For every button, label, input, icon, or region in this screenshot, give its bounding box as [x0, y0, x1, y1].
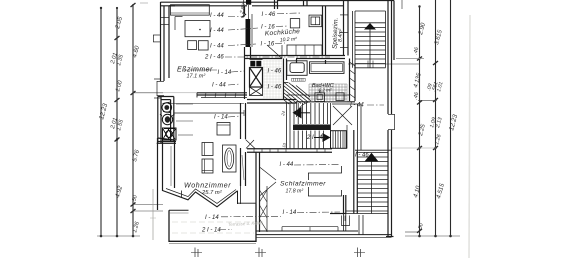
room label speisezimmer (vertical) — [332, 18, 344, 49]
svg-text:I - 14: I - 14 — [283, 210, 297, 216]
washbasin counter — [310, 60, 345, 73]
beam labels right area — [201, 103, 369, 234]
room label schlafzimmer — [280, 181, 326, 195]
svg-text:I - 46: I - 46 — [262, 12, 276, 18]
door swing schlafzimmer — [260, 167, 277, 180]
esszimmer chairs pair — [188, 41, 208, 50]
svg-text:2 I - 14: 2 I - 14 — [201, 228, 221, 234]
svg-text:17.1 m²: 17.1 m² — [187, 74, 206, 80]
hall faint tile grid — [263, 60, 282, 99]
ground datum mark 3 — [354, 248, 365, 258]
stove lower dark mass — [163, 128, 177, 140]
svg-text:2 I - 46: 2 I - 46 — [204, 55, 224, 61]
wall schlafzimmer bottom with window — [256, 214, 392, 238]
bad door swing — [297, 102, 312, 118]
hall radiator striped box — [331, 131, 347, 149]
dimension chain right outer (12.23) — [448, 0, 459, 237]
svg-text:I - 44: I - 44 — [210, 44, 224, 50]
beam labels I-46 column (kueche/bad) — [261, 12, 282, 91]
kitchen sink unit — [309, 15, 322, 27]
svg-text:8.4m²: 8.4m² — [338, 28, 344, 42]
svg-text:I - 46: I - 46 — [268, 69, 282, 75]
ground datum mark 1 — [191, 248, 202, 258]
window sill left upper — [153, 34, 161, 36]
svg-text:I - 44: I - 44 — [212, 83, 226, 89]
wall esszimmer bottom / wohnzimmer top — [168, 93, 296, 116]
svg-text:6.2 m²: 6.2 m² — [319, 88, 332, 93]
ground datum mark 2 — [255, 248, 266, 258]
wall kochkueche bottom (hall) — [245, 45, 345, 59]
bay window zigzag (wohnzimmer south) — [163, 189, 238, 207]
outer wall left wohnzimmer (thick pier) — [158, 138, 175, 210]
esszimmer table — [175, 17, 210, 37]
bay terrace rectangle — [169, 186, 256, 241]
window right wall — [394, 114, 396, 130]
stairs lower right direction arrow — [365, 153, 379, 162]
schlafzimmer closet outline — [308, 166, 341, 196]
wohnzimmer table with oval — [223, 145, 237, 172]
stairs center landing band (dark) — [293, 125, 331, 131]
wall schlafzimmer left hatched column — [256, 152, 276, 232]
svg-text:I - 46: I - 46 — [268, 85, 282, 91]
svg-text:I - 16: I - 16 — [261, 42, 275, 48]
wall bad left — [284, 59, 287, 100]
beam label dash-dot lines esszimmer — [183, 13, 330, 117]
wall speisezimmer right / upper stair left with rungs — [340, 0, 348, 56]
room label wohnzimmer — [184, 183, 231, 197]
dimension chain right inner (2.90 .46 4.135 .46 2.25 4.10 .50) — [412, 5, 427, 237]
stairs lower right (treads) — [346, 153, 388, 214]
bad tile hatch — [309, 84, 347, 103]
faint scan line left of bay — [152, 189, 154, 240]
svg-text:2 I - 46: 2 I - 46 — [306, 135, 326, 141]
chimney x-boxes — [250, 68, 263, 88]
dimension chain left middle (2.05 / 2.01 1.35 / 1.00 / 2.01 1.55 / 4.92) — [110, 7, 125, 237]
right notch step — [237, 191, 239, 204]
dimension chain left inner (4.60 / 5.76 / .50 / 1.26) — [131, 3, 142, 237]
wohnzimmer chairs left column — [202, 143, 213, 174]
beam labels I-44 column (esszimmer) — [204, 13, 232, 121]
wohnzimmer small table top — [217, 123, 230, 136]
room label esszimmer — [177, 67, 213, 80]
svg-text:10.2 m²: 10.2 m² — [280, 36, 298, 43]
window left middle — [156, 81, 158, 96]
svg-text:I - 16: I - 16 — [261, 25, 275, 31]
dimension chain right middle (3.615 .09 .55 1.01 1.09 2.13 1.26 4.515) — [426, 0, 446, 237]
bidet — [336, 93, 344, 101]
entry porch piers under stairwell — [343, 214, 345, 231]
beam dash-dot lines right/bottom — [219, 105, 384, 230]
door swing wohn->schlaf — [246, 140, 256, 149]
room label kochkueche — [265, 28, 301, 43]
small step detail below — [342, 216, 350, 226]
dimension extension lines right — [396, 58, 424, 60]
bad tile band under tub — [292, 78, 306, 81]
esszimmer sideboard top — [171, 5, 210, 15]
wall bad bottom — [286, 95, 355, 102]
faint terrace shadow line under bay — [169, 242, 256, 244]
svg-text:I - 44: I - 44 — [210, 28, 224, 34]
page edge artifact — [469, 15, 470, 258]
wall esszimmer/kochkueche divider with chimney — [239, 0, 263, 99]
hall vestibule closet with door swing X — [332, 104, 392, 150]
wc — [315, 91, 325, 102]
door koch->hall swing — [281, 45, 283, 59]
mini vertical dim .80 at chimney — [243, 0, 245, 18]
dimension chain left outer (12.23) — [98, 7, 109, 238]
outer wall top — [140, 0, 394, 9]
svg-text:I - 44: I - 44 — [350, 103, 364, 109]
wall hall bottom / schlafzimmer top (dark) — [247, 149, 332, 152]
outer wall left (upper) — [153, 2, 176, 143]
stairs center lower run — [294, 131, 323, 149]
stairs upper right (treads) — [353, 11, 386, 68]
kitchen counter bottom row — [287, 45, 322, 56]
esszimmer stove dark boiler blobs (left wall niche) — [160, 102, 175, 125]
wall wohnzimmer/schlafzimmer divider — [241, 103, 256, 186]
bad dark diagonal hatched band — [284, 83, 311, 105]
wall schlafzimmer right / lower stairwell left — [330, 130, 357, 226]
stairs upper right direction arrow — [364, 23, 376, 30]
svg-text:I - 44: I - 44 — [210, 13, 224, 19]
stairs center arrow up-run (points left) — [293, 107, 302, 119]
hall top wall — [247, 99, 296, 101]
beam line esszimmer — [174, 112, 244, 114]
stove leader lines — [176, 104, 193, 135]
stairs center arrow down-run (points right) — [323, 133, 331, 142]
svg-text:17.8 m²: 17.8 m² — [286, 189, 304, 195]
faint dashed carpet lines in bay — [172, 221, 254, 223]
svg-text:I - 44: I - 44 — [280, 162, 294, 168]
outer wall right — [386, 0, 395, 237]
svg-text:I - 14: I - 14 — [214, 115, 228, 121]
wall hatched segment under upper stairs — [350, 59, 356, 102]
small dim labels inside plan — [280, 110, 287, 148]
svg-text:Schlafzimmer: Schlafzimmer — [280, 181, 326, 188]
svg-text:25.7 m²: 25.7 m² — [201, 190, 223, 196]
svg-text:I - 14: I - 14 — [205, 215, 219, 221]
room label bad — [312, 83, 334, 93]
wall speisezimmer left — [323, 6, 326, 56]
wall hatch ticks — [205, 93, 206, 98]
dimension extension lines left — [133, 92, 163, 94]
svg-text:I - 14: I - 14 — [218, 70, 232, 76]
chimney flue black — [246, 19, 251, 47]
stairs center upper run (vertical treads) — [287, 103, 331, 149]
thin line across esszimmer south — [168, 103, 244, 105]
svg-text:I - 46: I - 46 — [355, 153, 369, 159]
svg-text:Wohnzimmer: Wohnzimmer — [184, 183, 231, 190]
bathtub — [287, 59, 307, 75]
kitchen cupboard square — [290, 19, 299, 28]
